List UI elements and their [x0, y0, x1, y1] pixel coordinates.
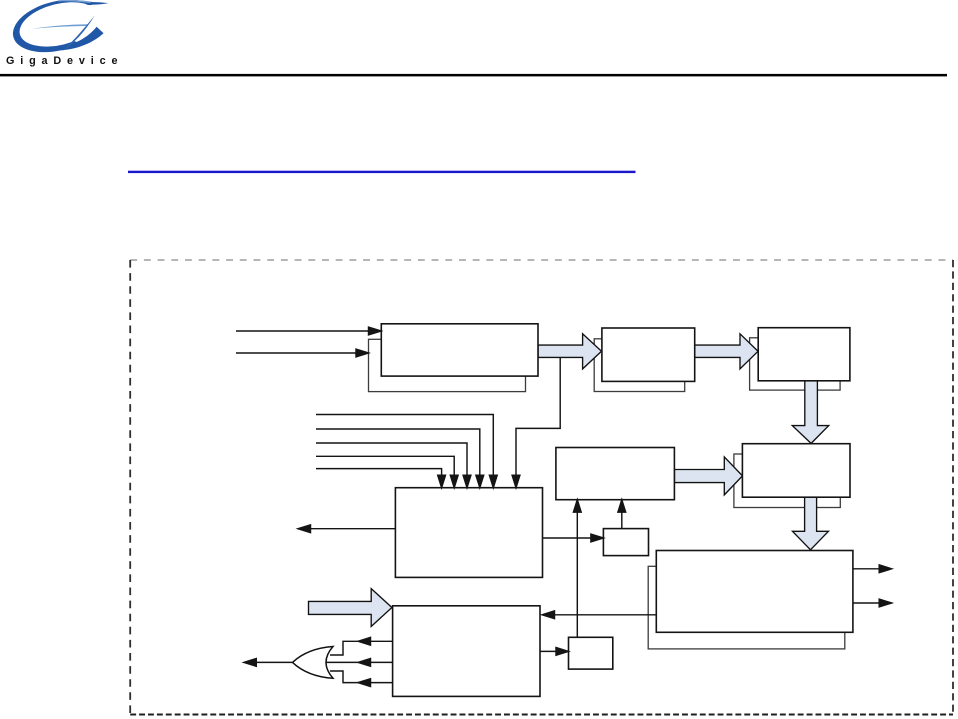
block B4 [742, 444, 850, 498]
wire W9 out of B6 left [298, 525, 395, 533]
block B1 [381, 324, 538, 376]
block B2 shadow [594, 339, 685, 392]
GigaDevice logo swoosh [7, 0, 112, 61]
wire W2 input to B1 shadow [236, 349, 369, 357]
wire W14 B7 to SB2 [540, 648, 569, 656]
dashed figure border right edge [952, 260, 954, 715]
wire W12 SB1 up to B5 [618, 500, 626, 529]
block B6 [395, 488, 542, 578]
block B3 shadow [750, 338, 841, 390]
block B7 [393, 606, 540, 697]
block B8 [656, 551, 853, 633]
block B1 shadow [369, 339, 526, 391]
header rule [0, 74, 947, 77]
OR gate G1 [293, 647, 334, 679]
wire W15 B7 to OR gate middle [320, 659, 393, 667]
block B4 shadow [734, 454, 840, 508]
block B3 [758, 328, 850, 381]
dashed figure border bottom edge [130, 714, 953, 716]
block B2 [602, 328, 695, 381]
wire W3 bus line 1 [316, 415, 497, 488]
block B5 [556, 448, 675, 500]
fat arrow FA4 [792, 381, 828, 444]
fat arrow FA1 [538, 334, 602, 369]
wire W18 OR gate output [244, 659, 293, 667]
wire W16 B7 to OR gate top [330, 637, 393, 655]
svg-text:GigaDevice: GigaDevice [6, 55, 123, 67]
block B8 shadow [648, 566, 845, 649]
blue heading underline [128, 171, 636, 173]
fat arrow FA5 [793, 497, 829, 550]
fat arrow FA2 [695, 334, 758, 369]
wire W4 bus line 2 [316, 429, 484, 488]
wire W5 bus line 3 [316, 443, 471, 488]
dashed figure border top edge [130, 259, 953, 261]
wire W1 input to B1 [236, 327, 381, 335]
wire W6 bus line 4 [316, 456, 458, 487]
small box SB1 [603, 529, 648, 556]
fat arrow FA3 [674, 457, 742, 495]
wire W13 B8 to B7 [542, 611, 656, 619]
wire W7 bus line 5 [316, 469, 446, 488]
wire W8 from FA1 down to B6 [512, 358, 560, 488]
dashed figure border left edge [129, 260, 131, 715]
wire W17 B7 to OR gate bottom [330, 671, 393, 687]
wire W20 B8 output lower [853, 599, 892, 607]
fat arrow FA6 [309, 589, 392, 627]
small box SB2 [569, 637, 613, 669]
wire W19 B8 output upper [853, 565, 892, 573]
wire W10 B6 to SB1 [543, 534, 604, 542]
wire W11 SB2 up to B5 [573, 500, 581, 638]
